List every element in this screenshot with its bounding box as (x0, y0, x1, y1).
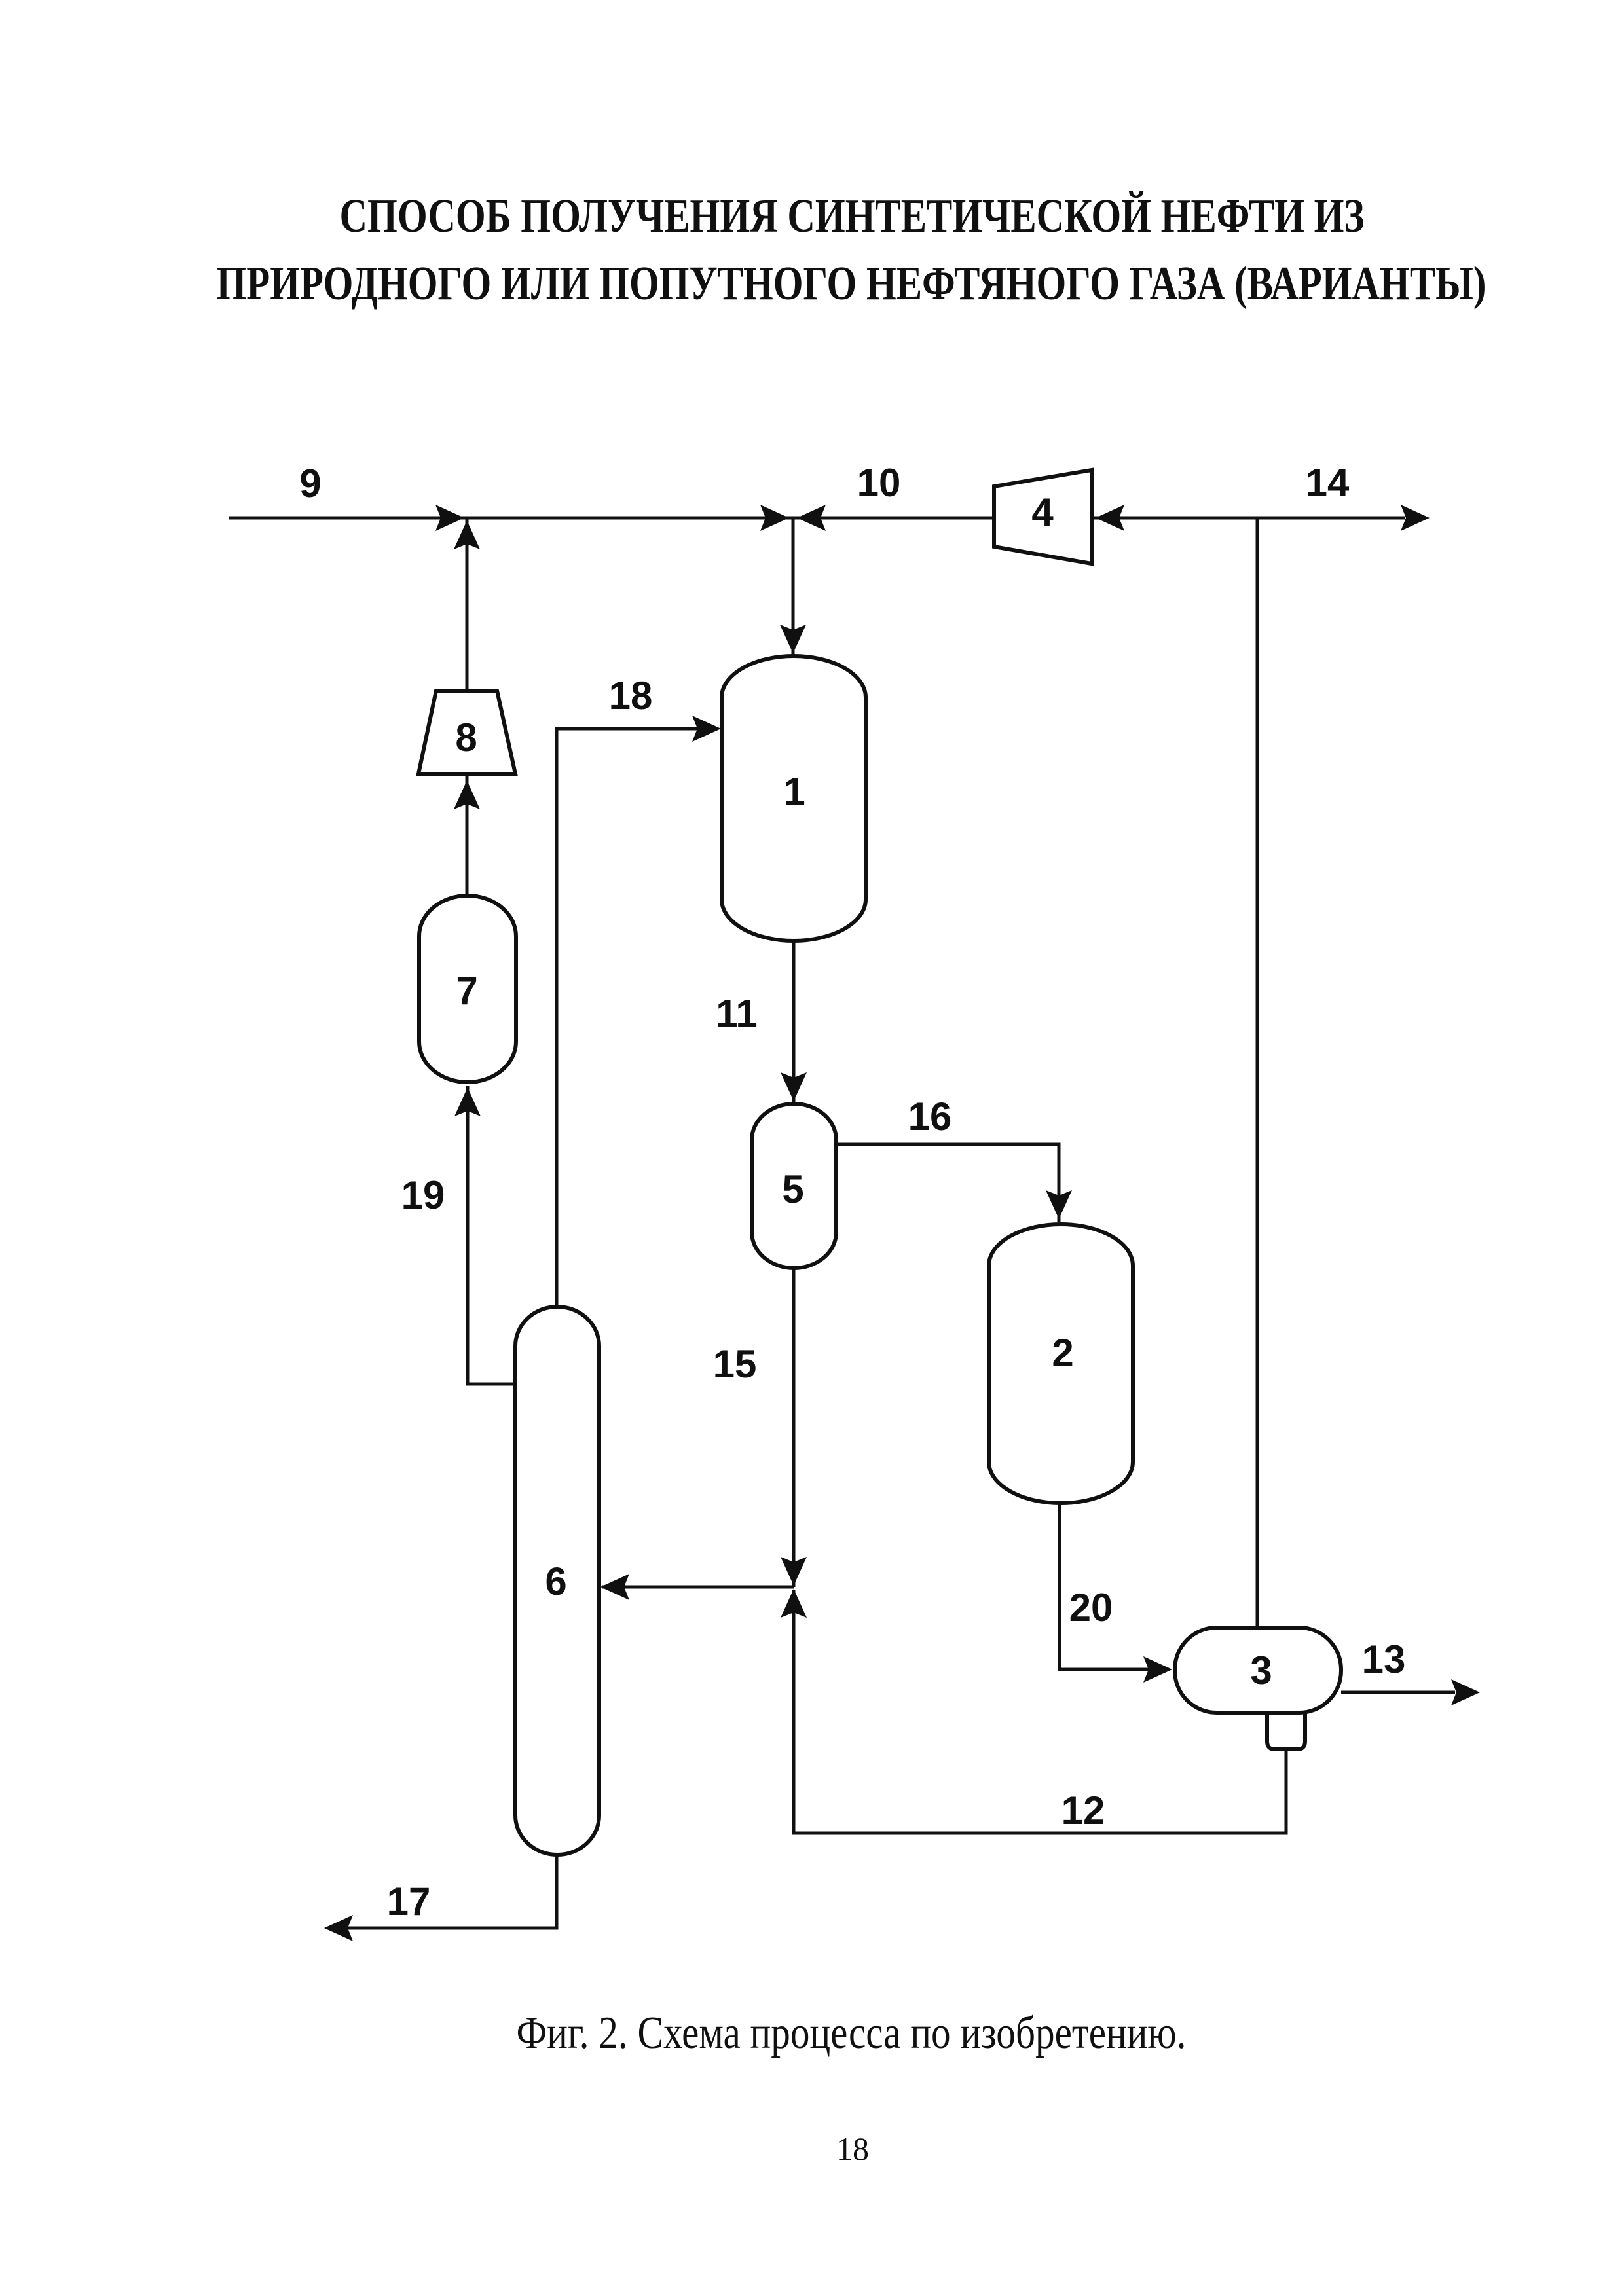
wire stream 11 reactor 1 to separator 5 (792, 941, 796, 1104)
arrowhead down into separator 5 (781, 1072, 807, 1101)
vessel 7 (419, 896, 516, 1082)
svg-text:8: 8 (455, 716, 477, 759)
svg-text:17: 17 (387, 1880, 431, 1923)
arrowhead stream 13 out right (1451, 1679, 1480, 1705)
svg-text:20: 20 (1069, 1586, 1113, 1630)
reactor vessel 2 (989, 1224, 1133, 1503)
arrowhead into junction 10 from left (760, 505, 789, 531)
separator vessel 3 horizontal drum (1175, 1628, 1341, 1713)
svg-text:19: 19 (401, 1173, 445, 1217)
svg-text:11: 11 (716, 992, 757, 1036)
wire from stream 14 tee into turbine 4 (1092, 517, 1405, 520)
svg-text:13: 13 (1362, 1637, 1406, 1681)
arrowhead up into vessel 7 (454, 1087, 481, 1116)
svg-text:1: 1 (783, 770, 805, 814)
svg-text:2: 2 (1052, 1331, 1073, 1375)
svg-text:18: 18 (609, 674, 653, 718)
svg-text:12: 12 (1061, 1789, 1105, 1832)
arrowhead stream 14 out to the right (1401, 505, 1430, 531)
wire from vessel 7 top to compressor 8 (466, 774, 469, 896)
svg-text:3: 3 (1250, 1649, 1272, 1692)
svg-text:Фиг. 2. Схема процесса по изоб: Фиг. 2. Схема процесса по изобретению. (517, 2008, 1187, 2058)
arrowhead up into stream 9 line (454, 520, 480, 549)
wire stream 19 from column 6 to vessel 7 (468, 1086, 516, 1384)
reactor vessel 1 (722, 656, 866, 941)
wire stream 15 separator 5 down to junction (792, 1268, 796, 1587)
arrowhead stream 17 out left (324, 1915, 353, 1941)
arrowhead left into column 6 (600, 1574, 629, 1600)
wire stream 9 top horizontal line (229, 517, 994, 520)
svg-text:14: 14 (1306, 461, 1350, 505)
wire stream 14 vertical down to separator 3 (1256, 518, 1259, 1628)
compressor 8 trapezoid (418, 691, 515, 774)
svg-text:7: 7 (456, 969, 477, 1013)
svg-text:4: 4 (1031, 490, 1054, 534)
arrowhead right into reactor 1 (692, 716, 721, 742)
arrowhead up into compressor 8 (454, 780, 480, 809)
svg-text:10: 10 (857, 461, 901, 505)
turbine 4 trapezoid (994, 470, 1092, 564)
arrowhead right into separator 3 (1143, 1656, 1172, 1683)
wire from junction 10 down into reactor 1 (792, 518, 795, 656)
wire stream 20 reactor 2 to separator 3 (1060, 1503, 1169, 1669)
wire junction into column 6 (602, 1586, 794, 1589)
arrowhead down at junction (781, 1557, 807, 1586)
svg-text:18: 18 (836, 2130, 869, 2167)
svg-text:15: 15 (713, 1342, 757, 1386)
svg-text:6: 6 (545, 1559, 566, 1603)
wire stream 16 separator 5 to reactor 2 (836, 1144, 1059, 1222)
vessel 3 bottom boot (1267, 1713, 1305, 1749)
svg-text:16: 16 (908, 1095, 952, 1139)
column vessel 6 (515, 1307, 599, 1855)
wire stream 13 out of separator 3 (1341, 1691, 1455, 1694)
arrowhead stream 9 at junction with compressor 8 riser (435, 505, 464, 531)
wire stream 12 from separator 3 boot to junction under column 6 feed (794, 1590, 1286, 1833)
arrowhead down into reactor 1 (780, 625, 806, 653)
arrowhead left into turbine 4 (1096, 505, 1124, 531)
arrowhead up into junction (781, 1589, 807, 1618)
svg-text:5: 5 (782, 1167, 803, 1211)
svg-text:ПРИРОДНОГО ИЛИ ПОПУТНОГО НЕФТЯ: ПРИРОДНОГО ИЛИ ПОПУТНОГО НЕФТЯНОГО ГАЗА … (217, 257, 1486, 310)
arrowhead into junction 10 from turbine 4 side (797, 505, 826, 531)
wire from compressor 8 up to stream 9 line (466, 518, 469, 691)
svg-text:9: 9 (299, 462, 321, 505)
wire stream 17 column 6 bottoms out (327, 1855, 557, 1928)
svg-text:СПОСОБ ПОЛУЧЕНИЯ СИНТЕТИЧЕСКОЙ: СПОСОБ ПОЛУЧЕНИЯ СИНТЕТИЧЕСКОЙ НЕФТИ ИЗ (340, 189, 1365, 242)
wire stream 18 from column 6 top to reactor 1 (557, 729, 718, 1307)
arrowhead down into reactor 2 (1046, 1190, 1072, 1219)
separator vessel 5 (752, 1104, 836, 1268)
